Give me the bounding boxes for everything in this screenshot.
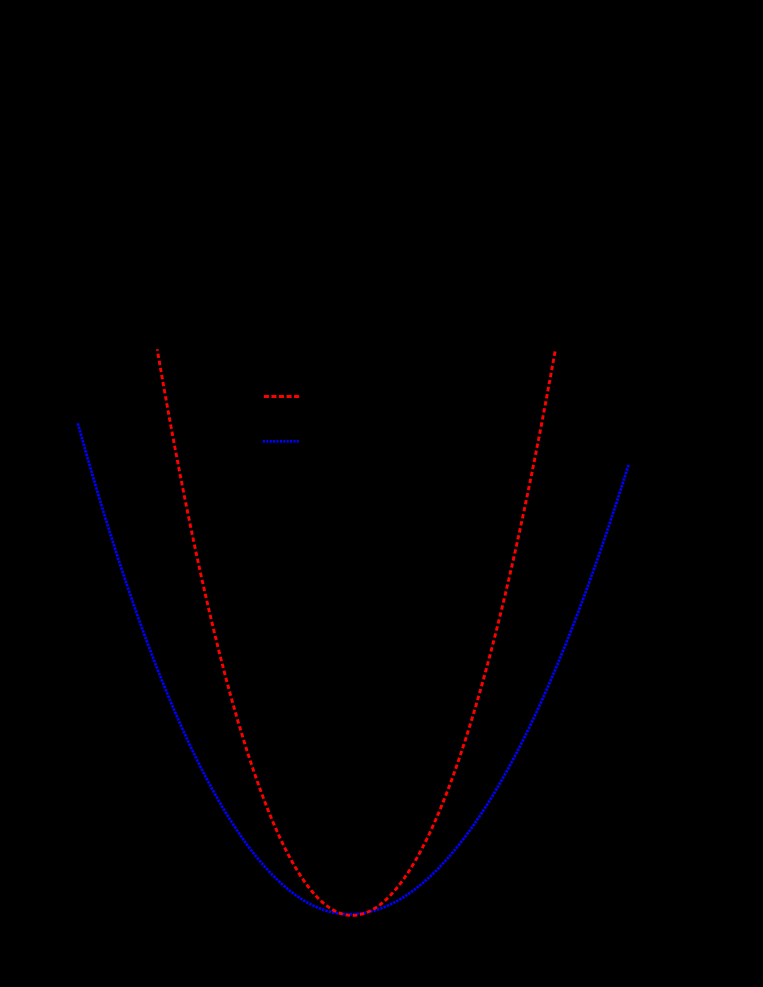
blue dotted parabola (wide curve) — [78, 423, 629, 914]
legend red dashed sample — [264, 395, 299, 398]
red dashed parabola (narrow curve) — [157, 349, 555, 915]
legend blue dotted sample — [263, 440, 299, 443]
